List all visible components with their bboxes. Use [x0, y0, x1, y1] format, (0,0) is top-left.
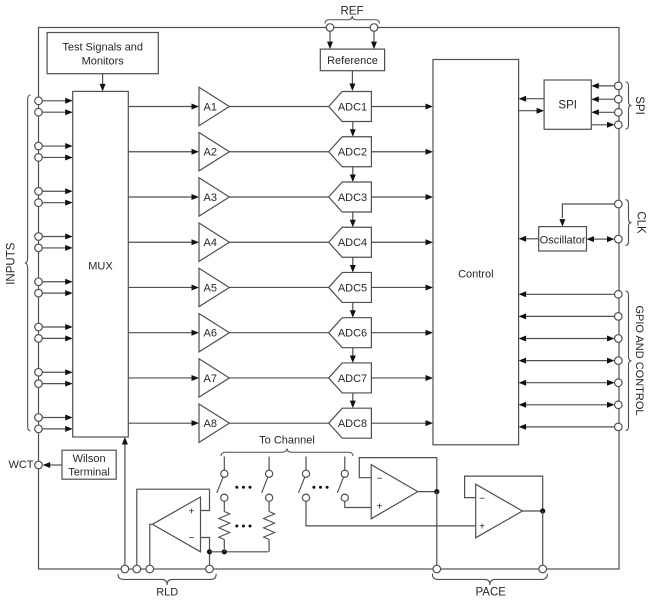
wire IN4P to MUX — [42, 234, 73, 240]
wire IN6N to MUX — [42, 335, 73, 341]
ADC8 — [329, 408, 372, 438]
svg-text:ADC1: ADC1 — [338, 102, 367, 114]
wire S2 to R2 — [268, 501, 270, 511]
pin RLD 3 — [146, 565, 154, 573]
ADC1 — [329, 92, 372, 122]
wire IN2N to MUX — [42, 154, 73, 160]
svg-text:GPIO AND CONTROL: GPIO AND CONTROL — [633, 305, 645, 415]
wire RLD pin 1 to MUX — [122, 437, 128, 565]
wire Oscillator to Control — [519, 236, 539, 242]
label INPUTS — [6, 242, 18, 285]
block Oscillator — [539, 227, 587, 251]
input pin IN3P — [35, 187, 43, 195]
wire IN1P to MUX — [42, 98, 73, 104]
amplifier A1 — [199, 87, 229, 125]
GPIO pin 3 — [615, 335, 623, 343]
switch S2 — [262, 470, 273, 501]
wire SPI to Control — [519, 96, 545, 102]
input pin IN5N — [35, 289, 43, 297]
wire R1 to bus — [223, 540, 225, 552]
op-amp RLD output wire to RLD pin 3 — [150, 524, 153, 565]
junction RLD summing node — [207, 549, 212, 554]
op-amp PACE buffer 1 feedback wire — [359, 458, 437, 492]
wire MUX to A7 — [128, 375, 199, 381]
svg-text:REF: REF — [341, 6, 364, 18]
junction PACE buffer 1 output node — [434, 489, 439, 494]
ADC5 — [329, 272, 372, 302]
svg-text:MUX: MUX — [88, 261, 113, 273]
pin REFP — [326, 24, 334, 32]
brace for CLK pins — [626, 200, 632, 246]
svg-text:A3: A3 — [204, 192, 217, 204]
input pin IN3N — [35, 199, 43, 207]
pin CLK out — [615, 235, 623, 243]
GPIO pin 4 — [615, 357, 623, 365]
wire brace to switch S2 — [268, 457, 270, 471]
wire Reference to ADC1 — [349, 71, 355, 91]
wire MUX to A3 — [128, 194, 199, 200]
wire SPI pin 1 to SPI — [591, 83, 614, 89]
wire PACE buffer 1 output to PACE pin 1 — [436, 492, 438, 566]
block Control — [433, 60, 519, 445]
svg-text:+: + — [189, 507, 195, 518]
wire MUX to A4 — [128, 239, 199, 245]
ellipsis between S1 and S2 — [235, 486, 251, 489]
svg-text:Control: Control — [458, 269, 493, 281]
wire IN8P to MUX — [42, 414, 73, 420]
wire ADC4 to ADC5 — [350, 257, 356, 272]
input pin IN4N — [35, 244, 43, 252]
wire A8 to ADC8 — [229, 422, 328, 424]
wire GPIO pin 5 to Control — [519, 380, 615, 386]
amplifier A8 — [199, 404, 229, 442]
ellipsis between S3 and S4 — [312, 486, 328, 489]
pin REFN — [370, 24, 378, 32]
wire SPI pin 3 to SPI — [591, 109, 614, 115]
svg-text:Terminal: Terminal — [68, 467, 110, 479]
op-amp RLD inverting input wire to RLD pin 4 — [201, 538, 210, 566]
junction PACE buffer 2 output node — [540, 508, 545, 513]
input pin IN1P — [35, 97, 43, 105]
wire A5 to ADC5 — [229, 286, 328, 288]
svg-text:Reference: Reference — [327, 55, 378, 67]
wire GPIO pin 3 to Control — [519, 336, 615, 342]
label WCT — [8, 459, 33, 471]
wire A6 to ADC6 — [229, 332, 328, 334]
svg-text:ADC3: ADC3 — [338, 192, 367, 204]
wire IN2P to MUX — [42, 143, 73, 149]
GPIO pin 2 — [615, 313, 623, 321]
amplifier A6 — [199, 314, 229, 352]
svg-text:−: − — [479, 494, 485, 505]
wire IN3N to MUX — [42, 200, 73, 206]
wire brace to switch S1 — [223, 457, 225, 471]
wire S1 to R1 — [223, 501, 225, 511]
wire GPIO pin 6 to Control — [519, 402, 615, 408]
input pin IN1N — [35, 108, 43, 116]
wire ADC3 to Control — [371, 194, 433, 200]
wire PACE buffer 1 output — [418, 491, 437, 493]
wire IN6P to MUX — [42, 324, 73, 330]
wire IN5N to MUX — [42, 290, 73, 296]
amplifier A7 — [199, 359, 229, 397]
op-amp PACE buffer 1 — [371, 465, 418, 519]
svg-text:A6: A6 — [204, 328, 217, 340]
ADC4 — [329, 227, 372, 257]
wire IN3P to MUX — [42, 188, 73, 194]
op-amp PACE buffer 2 feedback wire — [465, 476, 543, 511]
svg-text:WCT: WCT — [8, 459, 33, 471]
svg-text:ADC7: ADC7 — [338, 373, 367, 385]
pin PACE 1 — [433, 565, 441, 573]
label REF — [341, 6, 364, 18]
ADC3 — [329, 182, 372, 212]
wire A3 to ADC3 — [229, 196, 328, 198]
amplifier A3 — [199, 178, 229, 216]
junction resistor R1 bottom — [222, 549, 227, 554]
wire S3 to PACE buffer 2 + input — [306, 501, 476, 526]
brace for SPI pins — [626, 82, 632, 129]
pin RLD 1 — [121, 565, 129, 573]
wire A1 to ADC1 — [229, 106, 328, 108]
wire S4 to PACE buffer 1 + input — [345, 501, 371, 507]
switch S4 — [337, 470, 348, 501]
wire CLK pin to Oscillator — [559, 204, 614, 227]
block MUX — [73, 91, 129, 437]
wire PACE buffer 2 output — [522, 510, 542, 512]
svg-text:A5: A5 — [204, 282, 217, 294]
svg-text:Monitors: Monitors — [82, 56, 125, 68]
wire ADC2 to Control — [371, 149, 433, 155]
amplifier A4 — [199, 223, 229, 261]
block Wilson Terminal — [62, 450, 116, 479]
svg-text:−: − — [189, 533, 195, 544]
wire ADC7 to ADC8 — [350, 393, 356, 408]
amplifier A2 — [199, 133, 229, 171]
svg-text:+: + — [377, 502, 383, 513]
wire Test Signals to MUX — [100, 74, 106, 92]
input pin IN8P — [35, 414, 43, 422]
svg-text:RLD: RLD — [156, 587, 178, 599]
wire IN4N to MUX — [42, 245, 73, 251]
svg-text:A7: A7 — [204, 373, 217, 385]
block Reference — [320, 49, 384, 71]
brace for PACE pins — [432, 574, 547, 585]
resistor R1 — [219, 512, 230, 540]
wire GPIO pin 4 to Control — [519, 358, 615, 364]
GPIO pin 1 — [615, 291, 623, 299]
label SPI (pins) — [633, 96, 645, 115]
svg-text:SPI: SPI — [633, 96, 645, 115]
svg-text:ADC8: ADC8 — [338, 418, 367, 430]
ADC7 — [329, 363, 372, 393]
wire MUX to A5 — [128, 284, 199, 290]
wire MUX to A1 — [128, 104, 199, 110]
wire MUX to A2 — [128, 149, 199, 155]
brace for REF pins — [325, 16, 380, 24]
wire IN8N to MUX — [42, 426, 73, 432]
ellipsis between R1 and R2 — [235, 525, 251, 528]
wire brace to switch S3 — [305, 457, 307, 471]
ADC2 — [329, 137, 372, 167]
svg-text:PACE: PACE — [475, 587, 506, 599]
svg-text:ADC2: ADC2 — [338, 147, 367, 159]
svg-text:Oscillator: Oscillator — [540, 234, 586, 246]
wire R2 to bus — [268, 540, 270, 552]
input pin IN6P — [35, 323, 43, 331]
input pin IN2P — [35, 142, 43, 150]
wire REF pin 1 to Reference — [327, 31, 333, 49]
svg-text:CLK: CLK — [635, 211, 647, 234]
wire ADC1 to ADC2 — [350, 122, 356, 137]
op-amp RLD feedback wire (+ input to RLD pin 2) — [137, 489, 210, 565]
wire MUX to A8 — [128, 420, 199, 426]
resistor R2 — [264, 512, 275, 540]
svg-text:Wilson: Wilson — [73, 453, 106, 465]
input pin IN7N — [35, 380, 43, 388]
SPI pin 2 — [615, 95, 623, 103]
GPIO pin 5 — [615, 379, 623, 387]
wire SPI to SPI pin 4 (DOUT) — [591, 122, 614, 128]
wire ADC7 to Control — [371, 375, 433, 381]
pin WCT — [35, 461, 43, 469]
wire ADC1 to Control — [371, 104, 433, 110]
block SPI — [544, 80, 591, 129]
wire ADC8 to Control — [371, 420, 433, 426]
wire IN7P to MUX — [42, 369, 73, 375]
wire PACE buffer 2 output to PACE pin 2 — [542, 511, 544, 565]
brace To Channel — [221, 449, 353, 457]
SPI pin 3 — [615, 109, 623, 117]
svg-text:ADC4: ADC4 — [338, 237, 367, 249]
svg-text:+: + — [479, 522, 485, 533]
wire RLD summing bus — [210, 551, 269, 553]
block Test Signals and Monitors — [47, 33, 158, 74]
SPI pin 4 — [615, 121, 623, 129]
label CLK (pins) — [635, 211, 647, 234]
wire ADC5 to Control — [371, 284, 433, 290]
wire ADC4 to Control — [371, 239, 433, 245]
wire GPIO pin 2 to Control — [519, 313, 615, 319]
input pin IN6N — [35, 335, 43, 343]
brace for INPUTS — [25, 95, 31, 431]
pin PACE 2 — [539, 565, 547, 573]
pin RLD 2 — [133, 565, 141, 573]
input pin IN8N — [35, 425, 43, 433]
wire GPIO pin 1 to Control — [519, 291, 615, 297]
svg-text:−: − — [377, 474, 383, 485]
wire A2 to ADC2 — [229, 151, 328, 153]
wire ADC6 to Control — [371, 330, 433, 336]
input pin IN2N — [35, 154, 43, 162]
pin CLK in — [615, 200, 623, 208]
svg-text:A4: A4 — [204, 237, 217, 249]
input pin IN5P — [35, 278, 43, 286]
label GPIO AND CONTROL — [633, 305, 645, 415]
input pin IN4P — [35, 233, 43, 241]
wire Oscillator to CLK pin — [587, 236, 615, 242]
svg-text:ADC5: ADC5 — [338, 282, 367, 294]
label PACE — [475, 587, 506, 599]
switch S3 — [299, 470, 310, 501]
svg-text:ADC6: ADC6 — [338, 328, 367, 340]
input pin IN7P — [35, 368, 43, 376]
op-amp RLD — [152, 497, 200, 552]
wire ADC2 to ADC3 — [350, 167, 356, 182]
op-amp PACE buffer 2 — [476, 484, 523, 538]
wire GPIO pin 7 to Control — [519, 424, 615, 430]
wire IN1N to MUX — [42, 109, 73, 115]
svg-text:SPI: SPI — [558, 100, 577, 112]
svg-text:A8: A8 — [204, 418, 217, 430]
svg-text:INPUTS: INPUTS — [6, 242, 18, 285]
wire A7 to ADC7 — [229, 377, 328, 379]
wire REF pin 2 to Reference — [371, 31, 377, 49]
wire Wilson Terminal to WCT pin — [43, 462, 62, 468]
pin RLD 4 — [206, 565, 214, 573]
GPIO pin 6 — [615, 401, 623, 409]
wire ADC3 to ADC4 — [350, 212, 356, 227]
wire ADC6 to ADC7 — [350, 348, 356, 363]
wire Control to SPI — [519, 108, 545, 114]
brace for GPIO pins — [626, 291, 632, 431]
SPI pin 1 — [615, 82, 623, 90]
wire A4 to ADC4 — [229, 241, 328, 243]
amplifier A5 — [199, 268, 229, 306]
wire brace to switch S4 — [344, 457, 346, 471]
wire IN5P to MUX — [42, 279, 73, 285]
wire SPI pin 2 to SPI — [591, 96, 614, 102]
label RLD — [156, 587, 178, 599]
GPIO pin 7 — [615, 423, 623, 431]
svg-text:A2: A2 — [204, 147, 217, 159]
svg-text:A1: A1 — [204, 102, 217, 114]
wire MUX to A6 — [128, 330, 199, 336]
ADC6 — [329, 318, 372, 348]
svg-text:Test Signals and: Test Signals and — [62, 42, 143, 54]
wire ADC5 to ADC6 — [350, 302, 356, 317]
svg-text:To Channel: To Channel — [259, 435, 315, 447]
label To Channel — [259, 435, 315, 447]
brace for RLD pins — [118, 574, 216, 585]
switch S1 — [217, 470, 228, 501]
wire IN7N to MUX — [42, 381, 73, 387]
